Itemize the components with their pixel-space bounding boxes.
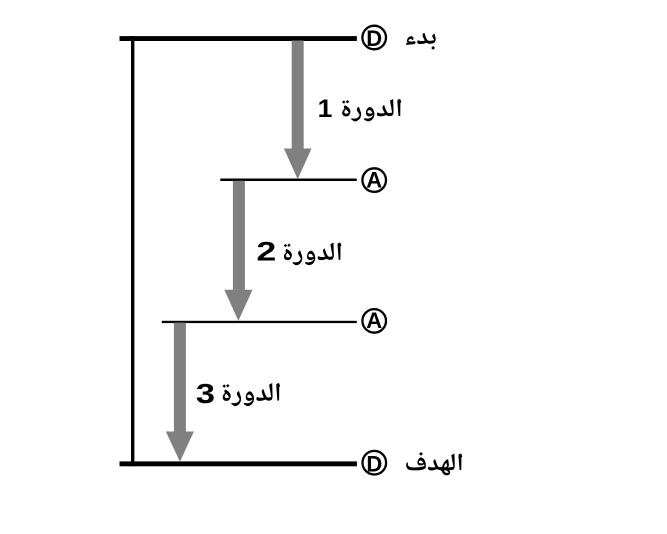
level line A2 — [162, 321, 357, 323]
node A (level 1) — [362, 167, 386, 192]
digit 1 (cycle 1 number) — [318, 95, 333, 122]
digit 3 (cycle 3 number) — [196, 378, 215, 409]
bottom thick line (goal level) — [120, 461, 357, 466]
svg-text:2: 2 — [256, 237, 276, 266]
svg-text:A: A — [366, 167, 382, 192]
svg-text:A: A — [366, 308, 382, 333]
arrow cycle 2 — [224, 181, 252, 321]
svg-text:D: D — [366, 26, 382, 51]
label "الدورة" cycle 1 — [342, 99, 401, 121]
label "بدء" start — [406, 33, 436, 50]
node D (bottom, goal) — [363, 451, 387, 476]
arrow cycle 1 — [284, 41, 312, 180]
node D (top, start) — [362, 26, 386, 52]
arrow cycle 3 — [166, 323, 194, 462]
svg-text:D: D — [366, 451, 382, 476]
digit 2 (cycle 2 number) — [256, 237, 276, 266]
label "الدورة" cycle 3 — [222, 383, 280, 406]
label "الدورة" cycle 2 — [284, 242, 342, 265]
svg-text:1: 1 — [318, 95, 333, 122]
svg-text:3: 3 — [196, 378, 215, 409]
node A (level 2) — [362, 308, 386, 333]
top thick line (start level) — [120, 36, 357, 41]
label "الهدف" goal — [406, 452, 462, 475]
level line A1 — [220, 179, 356, 182]
left vertical wire — [131, 36, 134, 466]
